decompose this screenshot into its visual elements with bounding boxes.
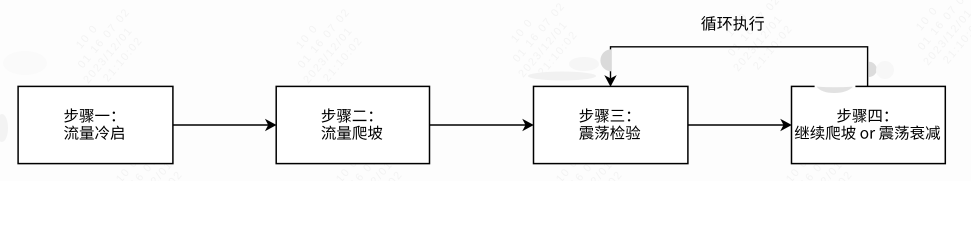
faint patch bottom-left corner area bbox=[3, 51, 47, 75]
text line2 of box 2: 流量爬坡 bbox=[321, 126, 382, 140]
box 步骤四 step-4 rectangle bbox=[792, 86, 946, 163]
box 步骤一 step-1 rectangle bbox=[18, 86, 173, 163]
label 循环执行 (loop execute) bbox=[701, 16, 764, 31]
box 步骤三 step-3 rectangle bbox=[534, 86, 688, 163]
text line1 of box 2: 步骤二： bbox=[322, 108, 373, 122]
faint halo right of up-leg blob bbox=[876, 61, 894, 79]
text line1 of box 4: 步骤四： bbox=[837, 108, 888, 122]
faint left-edge smudge bbox=[0, 114, 8, 142]
text line2 of box 4: 继续爬坡 or 震荡衰减 bbox=[795, 126, 940, 140]
box 步骤二 step-2 rectangle bbox=[276, 86, 429, 163]
text line1 of box 1: 步骤一： bbox=[64, 108, 115, 122]
text line2 of box 1: 流量冷启 bbox=[64, 126, 124, 140]
faint diagonal watermark remnants bbox=[60, 0, 154, 95]
arrowhead into box 3 top bbox=[604, 75, 616, 87]
faint patch left of loop down-leg bbox=[569, 57, 599, 71]
arrow from box 3 to box 4 bbox=[688, 124, 784, 126]
white patch erasing part of box4 top edge bbox=[815, 83, 856, 90]
grey crescent under box4 top edge bbox=[817, 87, 853, 93]
faint smear above box3 top edge bbox=[528, 72, 596, 81]
arrow from box 1 to box 2 bbox=[173, 124, 268, 126]
text line2 of box 3: 震荡检验 bbox=[579, 125, 640, 139]
text line1 of box 3: 步骤三： bbox=[579, 108, 630, 122]
grey blob left of loop down-leg bbox=[600, 49, 611, 71]
loop wire from box 4 top up-left-down to box 3 top bbox=[611, 47, 868, 87]
arrow from box 2 to box 3 bbox=[430, 124, 526, 126]
grey blob right of loop up-leg bbox=[869, 62, 877, 77]
